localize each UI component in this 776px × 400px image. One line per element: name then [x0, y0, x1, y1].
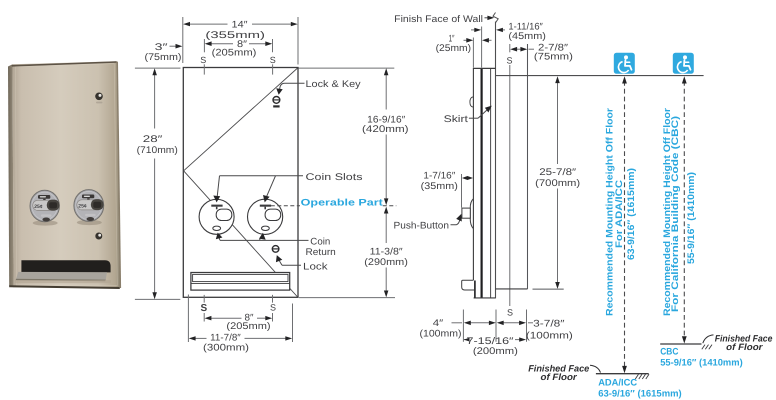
dimension 2-7/8 inch [513, 48, 525, 50]
svg-text:(75mm): (75mm) [534, 52, 573, 63]
skirt bottom cap [474, 297, 496, 299]
svg-text:3-7/8″: 3-7/8″ [533, 319, 565, 330]
coin slot bar right [260, 205, 271, 210]
top lock on photo [95, 93, 103, 101]
svg-text:(25mm): (25mm) [436, 43, 471, 54]
coin return housing right [265, 209, 281, 220]
svg-text:Lock: Lock [303, 261, 328, 272]
push-button profile [462, 208, 470, 218]
CBC dashed height dimension [683, 81, 685, 339]
coin mech circle right [248, 199, 283, 234]
svg-text:(700mm): (700mm) [535, 178, 580, 189]
extension above thick line [481, 27, 483, 68]
dimension 11-3/8 inch [385, 209, 387, 296]
svg-text:S: S [506, 55, 512, 65]
bottom extension lines side view [463, 310, 526, 342]
side tray foot profile [462, 280, 474, 290]
recessed box bottom [496, 288, 528, 290]
svg-text:S: S [270, 55, 276, 65]
dimension 8 inch bottom [204, 313, 272, 322]
svg-text:55-9/16″ (1410mm): 55-9/16″ (1410mm) [660, 357, 743, 368]
front face of unit [13, 61, 120, 288]
svg-text:(45mm): (45mm) [508, 31, 546, 42]
dimension 7-15/16 inch [464, 339, 466, 341]
skirt inner line [490, 68, 492, 297]
svg-text:Finish Face of Wall: Finish Face of Wall [394, 14, 483, 25]
svg-text:Lock & Key: Lock & Key [306, 79, 361, 90]
svg-text:63-9/16″ (1615mm): 63-9/16″ (1615mm) [626, 168, 637, 260]
svg-text:(355mm): (355mm) [205, 30, 265, 41]
CBC floor line [660, 343, 701, 345]
svg-text:25¢: 25¢ [34, 204, 43, 210]
tray shadow [15, 280, 111, 283]
stud tick bottom-left S [203, 295, 205, 303]
bottom edge shadow [9, 286, 120, 288]
wall break symbol [493, 13, 498, 23]
bottom extension line to right dim [299, 297, 395, 299]
coin slot bar left [211, 205, 222, 210]
svg-text:63-9/16″ (1615mm): 63-9/16″ (1615mm) [598, 388, 682, 399]
svg-text:Operable Part: Operable Part [301, 197, 384, 208]
handicap icon CBC [673, 53, 694, 74]
svg-text:(300mm): (300mm) [203, 343, 249, 354]
top extension line to right dim [299, 67, 395, 69]
tray lip [16, 272, 107, 280]
svg-text:(205mm): (205mm) [212, 48, 257, 59]
side top cap [473, 67, 496, 69]
coin return slot right [262, 226, 270, 230]
svg-text:(100mm): (100mm) [526, 331, 573, 342]
coin mech circle left [199, 199, 234, 234]
svg-text:Coin Slots: Coin Slots [306, 172, 363, 183]
svg-text:25¢: 25¢ [78, 204, 87, 210]
coin mechanism left [30, 190, 59, 225]
svg-text:28″: 28″ [143, 134, 163, 145]
ADA dashed height dimension [624, 81, 626, 369]
dimension 11-7/8 inch [188, 295, 292, 343]
dimension 16-9/16 inch [385, 70, 387, 203]
stud tick top-right S [272, 64, 274, 74]
side door rear thick line [481, 68, 483, 298]
svg-text:25-7/8″: 25-7/8″ [539, 167, 577, 178]
left side panel of unit [8, 64, 14, 287]
svg-text:(420mm): (420mm) [362, 124, 409, 135]
dispensing slot [21, 260, 110, 272]
svg-text:S: S [507, 308, 513, 318]
svg-text:(290mm): (290mm) [364, 257, 408, 268]
svg-text:Return: Return [306, 247, 336, 258]
svg-text:CBC: CBC [660, 346, 678, 357]
dimension 14 inch [183, 17, 298, 65]
door swing diagonal lower [184, 171, 298, 297]
svg-text:(35mm): (35mm) [421, 181, 458, 192]
lock symbol bottom [272, 246, 279, 253]
coin return slot left [213, 226, 221, 230]
product photo: vendor unit [8, 61, 120, 288]
svg-text:of Floor: of Floor [726, 342, 763, 352]
short line for 25-7/8 bottom [533, 288, 564, 290]
svg-text:(200mm): (200mm) [473, 346, 518, 357]
S stud line side [509, 44, 511, 306]
dimension 3-7/8 inch [499, 322, 525, 324]
svg-text:ADA/ICC: ADA/ICC [598, 377, 637, 388]
stud tick bottom-right S [272, 295, 274, 303]
coin mechanism right [74, 190, 104, 225]
svg-text:Skirt: Skirt [444, 114, 469, 125]
coin return housing left [216, 209, 232, 220]
svg-text:14″: 14″ [232, 19, 249, 30]
dispensing tray front view [191, 273, 290, 291]
lock and key symbol [273, 97, 281, 107]
push-button bump on face [470, 199, 473, 229]
extension above door face [472, 38, 474, 68]
svg-text:of Floor: of Floor [541, 372, 578, 382]
wall line [495, 22, 497, 299]
svg-text:For California Building Code (: For California Building Code (CBC) [670, 116, 681, 312]
door inner highlight frame [16, 64, 118, 286]
svg-text:Push-Button: Push-Button [394, 220, 450, 231]
lock profile bump [470, 97, 473, 107]
svg-text:4″: 4″ [433, 318, 444, 329]
svg-text:S: S [270, 303, 276, 313]
dimension 25-7/8 inch [557, 78, 559, 287]
svg-text:11-3/8″: 11-3/8″ [370, 246, 404, 257]
door swing diagonal upper [184, 68, 298, 171]
door hem below foot [474, 281, 476, 298]
top edge of unit [12, 61, 117, 66]
ADA floor line [596, 373, 649, 375]
svg-text:(100mm): (100mm) [420, 328, 462, 339]
dimension 8 inch top [204, 39, 272, 52]
svg-text:(75mm): (75mm) [145, 52, 182, 63]
svg-text:55-9/16″ (1410mm): 55-9/16″ (1410mm) [686, 172, 697, 264]
operable part dashed line [271, 205, 300, 207]
handicap icon ADA [614, 53, 635, 74]
dimension 28 inch [135, 68, 181, 299]
svg-text:S: S [200, 55, 206, 65]
svg-text:S: S [200, 303, 207, 314]
svg-text:(205mm): (205mm) [226, 321, 270, 332]
side door front face line [472, 68, 474, 280]
stud tick top-left S [203, 64, 205, 74]
svg-text:(710mm): (710mm) [137, 145, 178, 156]
bottom lock on photo [95, 233, 102, 240]
recessed box top line extending right [496, 75, 704, 77]
cabinet back line [527, 44, 529, 289]
front elevation cabinet outline [183, 68, 298, 298]
svg-text:For ADA/ICC: For ADA/ICC [614, 180, 625, 248]
